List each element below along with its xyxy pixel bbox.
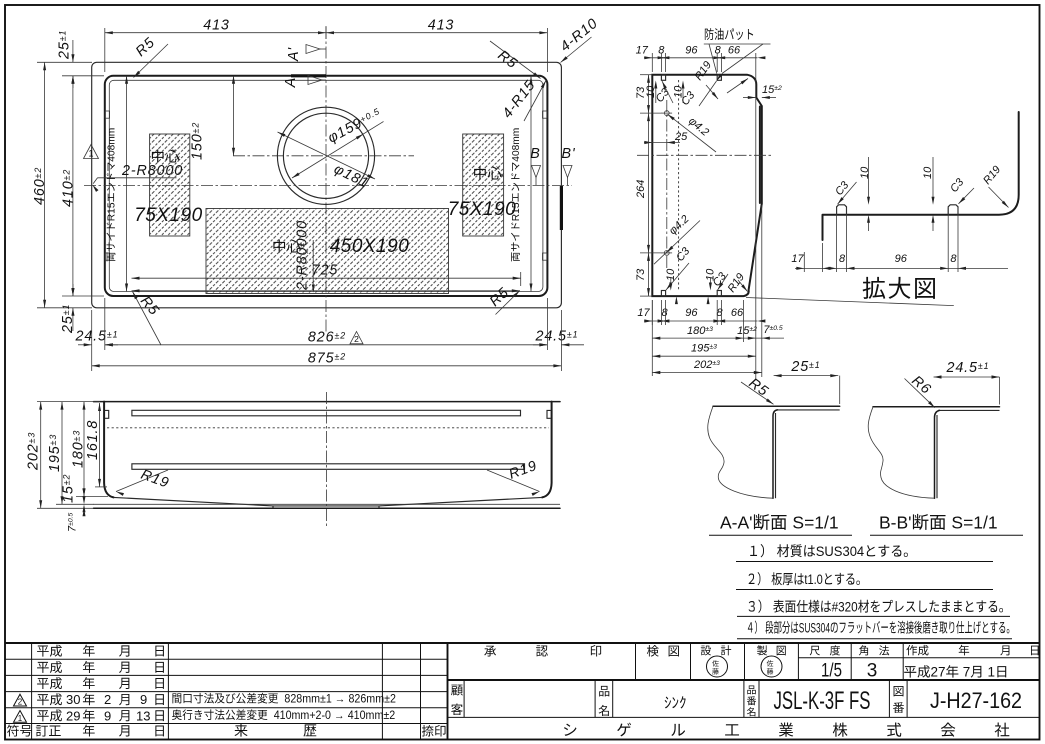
hinban label xyxy=(747,686,755,695)
top dim extensions xyxy=(651,53,653,72)
right extension at 202 tip xyxy=(761,205,763,377)
svg-text:13: 13 xyxy=(136,708,150,723)
dim 725 xyxy=(132,277,521,279)
anti-oil pad label xyxy=(705,28,753,40)
dim 150 (bowl top edge to drain center) xyxy=(233,76,235,156)
svg-text:25: 25 xyxy=(674,131,688,143)
svg-text:73: 73 xyxy=(635,268,647,281)
bottom dims 17/8/96/8/66 xyxy=(644,320,757,322)
svg-text:8: 8 xyxy=(715,45,722,57)
note 2 xyxy=(749,572,860,588)
A-A detail wall double line xyxy=(773,410,778,498)
hatched pad 75x190 left xyxy=(150,134,190,236)
title labels xyxy=(484,646,496,657)
enlarged rib 1 xyxy=(837,205,847,215)
side view: rack rail upper xyxy=(132,410,521,416)
svg-text:A: A xyxy=(283,77,299,88)
svg-text:SUS304: SUS304 xyxy=(816,544,865,560)
svg-text:2: 2 xyxy=(354,334,359,344)
svg-text:413: 413 xyxy=(428,18,455,34)
header major line xyxy=(448,679,1040,681)
screw holes phi4.2 xyxy=(664,111,669,116)
created date xyxy=(904,665,1006,680)
side view: right wall with R19 xyxy=(542,402,551,498)
side view: bottom hem line xyxy=(94,507,561,509)
right thin extension line (195 level) xyxy=(755,53,757,380)
hinmei label xyxy=(599,686,609,697)
svg-text:29: 29 xyxy=(66,708,80,723)
svg-text:75X190: 75X190 xyxy=(448,199,517,220)
R5 label bottom-right corner xyxy=(496,291,520,315)
dim 408mm left (R15 end to end) xyxy=(126,76,128,292)
plan view: horizontal centerline xyxy=(84,184,572,186)
svg-text:3: 3 xyxy=(867,661,878,682)
svg-text:9: 9 xyxy=(140,692,147,707)
B-B detail wall double line xyxy=(935,410,940,498)
pad rib top-2 xyxy=(717,75,721,81)
small outside arrows 15/7 xyxy=(83,488,86,496)
dim 25 top-left (outside arrows) xyxy=(72,40,74,62)
kakudaizu title xyxy=(863,277,935,299)
revision triangle 1 at dim 410 xyxy=(84,145,99,159)
svg-text:10: 10 xyxy=(859,166,871,179)
svg-text:#320: #320 xyxy=(832,599,858,615)
title block header row columns xyxy=(635,643,637,680)
A-A R5 label xyxy=(741,382,774,404)
svg-text:1: 1 xyxy=(988,665,996,680)
svg-text:t1.0: t1.0 xyxy=(804,572,822,588)
svg-text:→: → xyxy=(335,693,346,705)
dim 202 xyxy=(652,372,762,374)
note 3 xyxy=(749,599,1003,615)
dim 15 top right xyxy=(743,97,756,99)
enlarged view main profile xyxy=(823,112,1019,240)
dim 195 xyxy=(652,355,756,357)
R19 label right xyxy=(487,470,540,492)
plan view: drain circle centerline xyxy=(233,155,414,157)
dim 180 row with 15 and 7 xyxy=(652,337,784,339)
center x marks near pad labels xyxy=(173,150,176,153)
svg-text:SUS304: SUS304 xyxy=(799,622,831,637)
B-B break line xyxy=(868,407,934,498)
section plane thick mark B-B on right outer edge xyxy=(560,186,563,230)
svg-text:1: 1 xyxy=(18,714,23,723)
hatched pad 75x190 right xyxy=(463,134,504,236)
side view: top surface line xyxy=(94,401,561,403)
svg-text:A-A': A-A' xyxy=(720,513,753,533)
svg-text:30: 30 xyxy=(66,692,80,707)
revision empty date row xyxy=(37,677,62,689)
dim 826 bottom xyxy=(105,344,548,346)
A-A title xyxy=(720,513,839,533)
4-R10 label top-right xyxy=(561,37,592,63)
A-A dim 25 xyxy=(774,375,839,377)
plan view: sink outer flange rectangle 875x460 R10 xyxy=(92,62,562,307)
header sub line (under shakudo/kakuho/sakusei) xyxy=(798,657,1039,659)
svg-text:408mm: 408mm xyxy=(107,128,118,162)
A-A detail top surface xyxy=(713,405,840,407)
svg-text:408mm: 408mm xyxy=(511,128,522,162)
svg-text:R15: R15 xyxy=(107,202,118,221)
svg-text:66: 66 xyxy=(728,45,741,57)
plan view: vertical centerline xyxy=(325,27,327,333)
top dims 17/8/96/8/66 xyxy=(644,57,757,59)
long leader to enlarged view xyxy=(746,298,954,306)
phi4.2 label upper xyxy=(668,114,717,152)
drain plane centerline xyxy=(637,154,772,156)
dim 410 left xyxy=(72,76,74,296)
revision empty date row xyxy=(37,661,62,673)
side view: drain recess xyxy=(273,505,379,507)
note 1 xyxy=(750,544,908,560)
dim 875 bottom xyxy=(92,365,562,367)
svg-text:264: 264 xyxy=(635,180,647,199)
svg-text:S=1/1: S=1/1 xyxy=(792,513,838,533)
product name (halfwidth kana) xyxy=(665,696,686,708)
bottom crease reference line xyxy=(132,290,520,292)
svg-text:410mm±2: 410mm±2 xyxy=(348,710,395,722)
svg-text:17: 17 xyxy=(637,307,650,319)
side view: left wall with R19 xyxy=(104,402,113,498)
revision bottom row labels xyxy=(7,725,32,737)
svg-text:161.8: 161.8 xyxy=(85,420,101,460)
side view: bowl bottom slope left xyxy=(114,497,274,506)
R19 label enlarged xyxy=(989,187,1009,208)
drain hole circles phi181 / phi159 xyxy=(277,107,374,204)
revision row heisei30 xyxy=(37,693,62,705)
revision table columns xyxy=(31,643,33,740)
svg-text:10: 10 xyxy=(922,166,934,179)
pad rib top-1 xyxy=(661,75,665,81)
side view: rail tab right xyxy=(547,410,551,418)
label both-side R15 end 408mm (left, rotated) xyxy=(107,128,118,262)
B-B R6 label xyxy=(905,379,935,408)
side view dims 202/195/180/161.8 xyxy=(40,402,42,509)
dim 24.5 bottom-right (outside arrows) xyxy=(533,344,547,346)
svg-text:S=1/1: S=1/1 xyxy=(951,513,997,533)
side view: centerline xyxy=(326,392,328,528)
revision descriptions xyxy=(172,693,395,706)
svg-text:96: 96 xyxy=(895,253,908,265)
C3 label rib2 xyxy=(959,188,975,204)
hidden line (dotted) rib inner xyxy=(678,80,680,290)
side view: bowl bottom slope right xyxy=(379,497,542,506)
plan view: bowl opening 826x410 R15 (heavy) xyxy=(105,76,548,296)
hatched pad 450x190 center xyxy=(206,209,449,294)
enlarged bottom dims 17/8/96/8 xyxy=(795,267,1008,269)
dims 73/264/73 left xyxy=(648,75,650,296)
dim 25 (hole offset) xyxy=(644,142,680,144)
kokyaku label xyxy=(451,685,463,696)
svg-text:450X190: 450X190 xyxy=(330,236,410,257)
dim 408mm right xyxy=(530,76,532,292)
svg-text:B-B': B-B' xyxy=(879,513,912,533)
company name xyxy=(564,724,577,736)
label both-side R15 end 408mm (right, rotated) xyxy=(511,128,522,262)
side view: hidden water line (dotted) xyxy=(107,427,549,429)
side view: rail tab left xyxy=(105,410,109,418)
revision row heisei29 xyxy=(37,709,62,721)
side view: lower surface line xyxy=(94,503,561,505)
svg-text:66: 66 xyxy=(731,307,744,319)
phi4.2 label lower xyxy=(654,221,700,265)
svg-text:17: 17 xyxy=(791,253,804,265)
second row columns xyxy=(463,680,465,717)
zuban label xyxy=(894,686,904,696)
revision empty date row xyxy=(37,645,62,657)
svg-text:8: 8 xyxy=(661,307,668,319)
svg-text:A': A' xyxy=(286,47,302,62)
B-B detail top surface xyxy=(873,406,1000,408)
R5 label top-right corner xyxy=(490,41,541,79)
extension lines xyxy=(37,401,100,403)
svg-text:B': B' xyxy=(561,146,575,162)
plan view: bowl inner R5 roll line xyxy=(109,80,543,291)
svg-text:2: 2 xyxy=(104,692,111,707)
svg-text:96: 96 xyxy=(685,45,698,57)
dim 413 + 413 top xyxy=(105,32,548,34)
enlarged rib 2 xyxy=(948,205,958,215)
drain diameter dimension lines (X through circle) xyxy=(278,132,376,179)
svg-text:96: 96 xyxy=(685,307,698,319)
dim 460 left xyxy=(44,62,46,307)
svg-text:17: 17 xyxy=(636,45,649,57)
pad labels xyxy=(152,149,179,162)
screw hole centerline vertical xyxy=(666,100,668,268)
svg-text:413: 413 xyxy=(203,18,230,34)
svg-text:8: 8 xyxy=(839,253,846,265)
pad rib bottom-1 xyxy=(661,291,665,297)
svg-text:1: 1 xyxy=(88,149,93,159)
svg-text:→: → xyxy=(334,710,345,722)
pad rib bottom-2 xyxy=(717,291,721,297)
side view: rack rail lower xyxy=(132,464,525,470)
note 4 xyxy=(748,621,1009,637)
dim 24.5 bottom-left (outside arrows) xyxy=(78,344,92,346)
dim 10 rib2 xyxy=(932,157,934,201)
section plane thick mark A-A on bowl top edge xyxy=(291,74,326,77)
svg-text:JSL-K-3F FS: JSL-K-3F FS xyxy=(774,687,871,715)
plan view: R15-end tick marks on bowl side edges xyxy=(105,111,109,118)
A-A break line xyxy=(708,406,773,498)
revision triangles in table xyxy=(14,694,27,706)
svg-text:27: 27 xyxy=(931,665,946,680)
svg-text:828mm±1: 828mm±1 xyxy=(284,693,331,705)
B-B dim 24.5 xyxy=(934,376,1000,378)
svg-text:826mm±2: 826mm±2 xyxy=(348,693,395,705)
R5 label bottom-left corner xyxy=(133,292,162,346)
dim 10 rib1 xyxy=(868,157,870,201)
section profile outline (heavy) xyxy=(652,75,762,296)
R5 label top-left corner xyxy=(134,44,169,78)
title block outer top line xyxy=(5,642,1040,644)
svg-text:7: 7 xyxy=(963,665,971,680)
svg-text:J-H27-162: J-H27-162 xyxy=(930,688,1022,713)
dim 25 bottom-left (outside arrows) xyxy=(72,284,74,296)
svg-text:9: 9 xyxy=(104,708,111,723)
B-B title xyxy=(879,513,998,533)
C3 label rib1 xyxy=(838,182,857,204)
svg-text:1/5: 1/5 xyxy=(821,661,842,682)
R19 label left xyxy=(116,470,168,492)
svg-text:8: 8 xyxy=(950,253,957,265)
svg-text:B: B xyxy=(530,146,540,162)
revision triangle 2 at dim 826 xyxy=(350,332,363,344)
extension lines bottom dims xyxy=(104,298,106,350)
svg-text:75X190: 75X190 xyxy=(134,205,203,226)
stamp circles xyxy=(707,656,728,677)
svg-text:410mm+2-0: 410mm+2-0 xyxy=(274,710,331,722)
svg-text:2: 2 xyxy=(18,698,23,707)
flange hem thick bar (right) xyxy=(759,107,761,204)
revision table rows xyxy=(5,658,448,660)
